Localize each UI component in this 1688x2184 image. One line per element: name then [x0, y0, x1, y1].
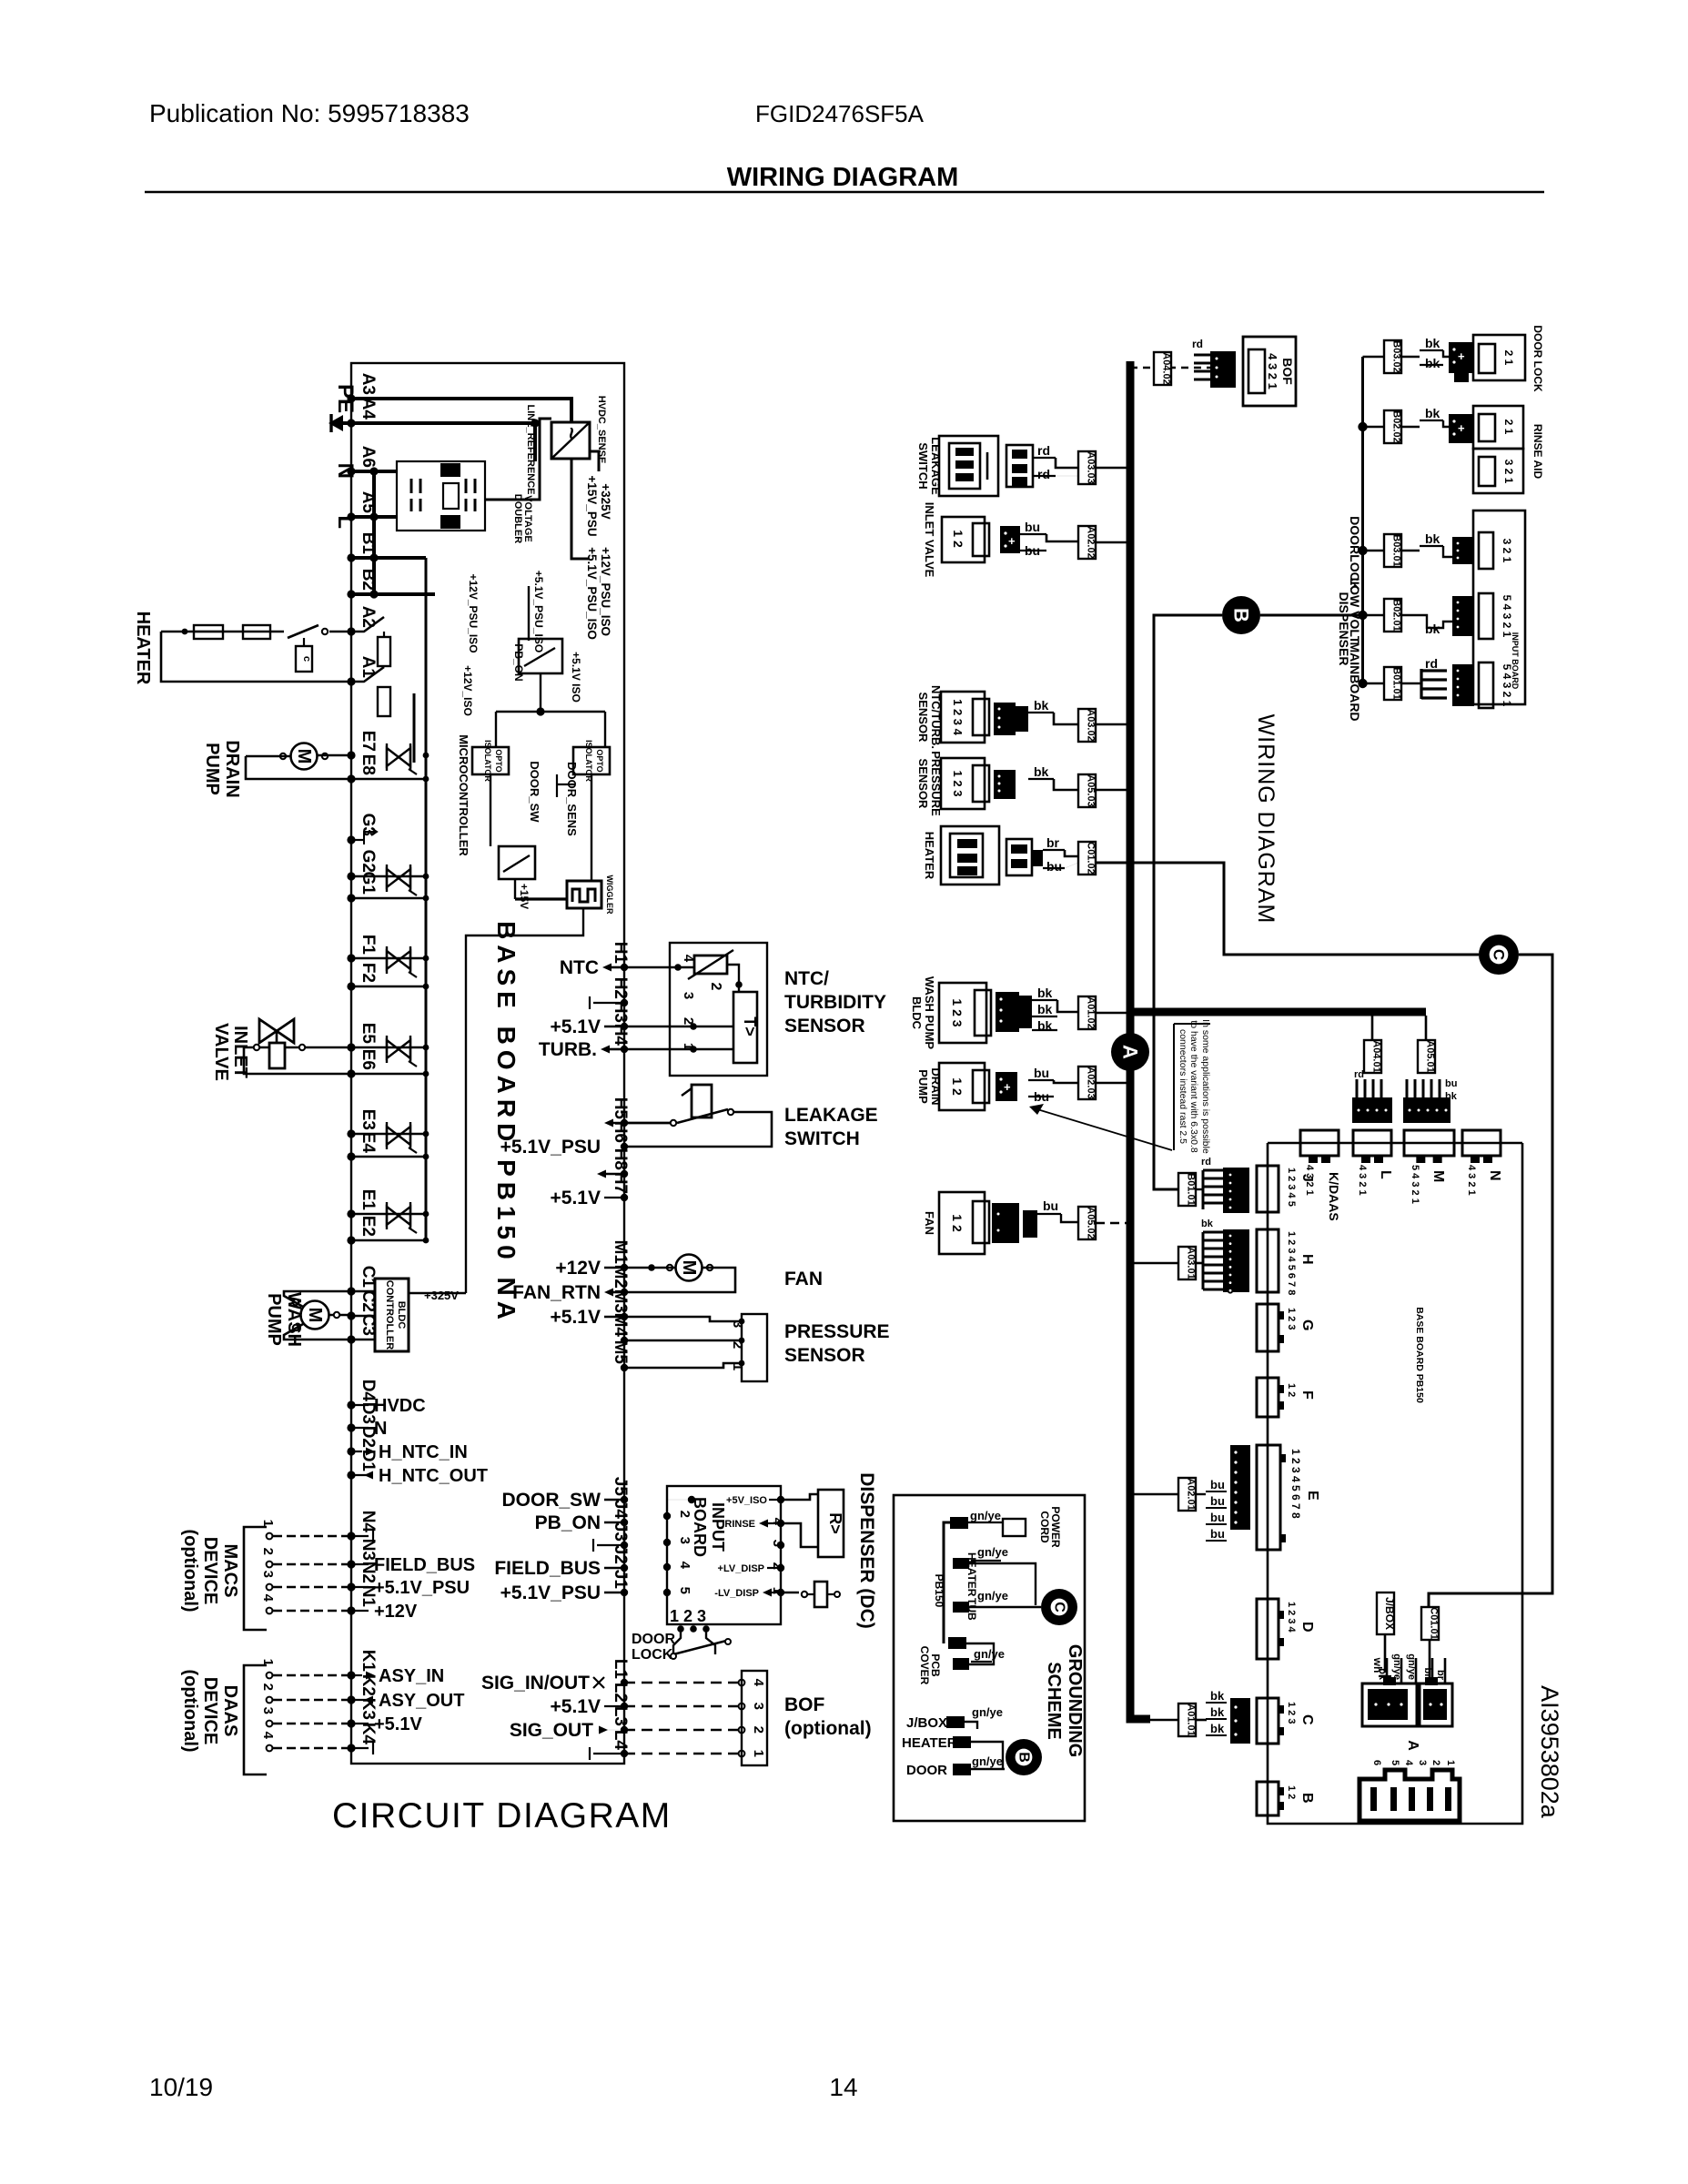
pin H6 — [621, 1143, 628, 1150]
svg-text:+: + — [1004, 1080, 1011, 1094]
connector code C01.01 — [1421, 1607, 1439, 1640]
pin C2 — [347, 1311, 355, 1319]
pin N4 — [347, 1532, 355, 1540]
svg-text:WIRING DIAGRAM: WIRING DIAGRAM — [1253, 714, 1279, 925]
svg-text:NTC/: NTC/ — [784, 968, 829, 989]
pin K1 — [347, 1671, 355, 1679]
svg-text:4 3 2 1: 4 3 2 1 — [1266, 353, 1279, 389]
isolation slit — [413, 693, 416, 763]
connector H — [1257, 1229, 1279, 1292]
svg-text:rd: rd — [1037, 443, 1050, 458]
HEATER component (wiring) — [941, 826, 999, 885]
pin M3 — [621, 1313, 628, 1320]
svg-text:L: L — [1378, 1170, 1393, 1179]
heater ground blob 2 — [953, 1736, 971, 1748]
svg-text:HVDC: HVDC — [374, 1396, 426, 1416]
DRAIN PUMP component (wiring) — [939, 1063, 985, 1110]
svg-text:-LV_DISP: -LV_DISP — [714, 1588, 759, 1599]
connector code A03.01 — [1178, 1247, 1196, 1279]
heater ground wire 2 — [971, 1742, 1003, 1769]
svg-text:2: 2 — [677, 1511, 692, 1518]
E3 E4 triac — [351, 1133, 426, 1136]
svg-text:2: 2 — [708, 983, 723, 991]
leakage connector — [1006, 445, 1033, 487]
svg-text:gn/ye: gn/ye — [977, 1589, 1008, 1603]
svg-text:1 2 3 4 5 6 7 8: 1 2 3 4 5 6 7 8 — [1286, 1231, 1297, 1295]
svg-text:2: 2 — [730, 1341, 745, 1349]
svg-text:gn/ye: gn/ye — [970, 1509, 1001, 1522]
svg-text:rd: rd — [1037, 467, 1050, 481]
svg-text:J1: J1 — [611, 1570, 630, 1590]
svg-text:bk: bk — [1425, 336, 1440, 350]
svg-text:bk: bk — [1210, 1722, 1225, 1735]
svg-text:WIGGLER: WIGGLER — [605, 875, 614, 915]
pin H8 — [621, 1170, 628, 1178]
pin J2 — [621, 1564, 628, 1572]
svg-text:2: 2 — [681, 1017, 696, 1025]
svg-text:E5: E5 — [359, 1023, 378, 1045]
svg-text:INLET VALVE: INLET VALVE — [923, 502, 936, 578]
door connector block 2 — [1420, 1683, 1452, 1726]
svg-text:1 2 3 4: 1 2 3 4 — [951, 699, 965, 736]
svg-text:+5.1V: +5.1V — [374, 1714, 422, 1734]
svg-text:+5.1V_PSU_ISO: +5.1V_PSU_ISO — [585, 547, 599, 640]
svg-text:LOCK: LOCK — [632, 1647, 673, 1663]
svg-text:SCHEME: SCHEME — [1044, 1662, 1064, 1740]
+15V switch — [499, 846, 535, 879]
NTC/TURB SENSOR component (wiring) — [941, 692, 985, 743]
svg-text:3: 3 — [1417, 1760, 1428, 1765]
opto isolator U2 — [472, 747, 509, 774]
svg-text:rd: rd — [1201, 1157, 1211, 1168]
turbidity T> box — [733, 992, 757, 1063]
svg-text:M5: M5 — [611, 1340, 630, 1365]
base board outline (wiring) — [1268, 1143, 1522, 1824]
tub ground blob — [953, 1602, 969, 1613]
svg-text:+12V: +12V — [555, 1258, 601, 1279]
pin B2 — [347, 590, 355, 598]
pin H4 — [621, 1046, 628, 1053]
K/L/M/N connector rail — [1268, 1142, 1522, 1145]
wire A4 drop to doubler — [533, 423, 537, 461]
svg-text:A: A — [1405, 1740, 1420, 1751]
svg-text:+: + — [1458, 421, 1465, 435]
dispenser R> box — [818, 1490, 844, 1557]
svg-text:N: N — [374, 1419, 387, 1439]
wire ISO outputs — [590, 451, 599, 471]
svg-text:FAN_RTN: FAN_RTN — [512, 1282, 601, 1303]
circled node A — [1111, 1033, 1149, 1071]
svg-text:4 3 2 1: 4 3 2 1 — [1357, 1165, 1368, 1196]
svg-text:1 2 3 4: 1 2 3 4 — [1286, 1602, 1297, 1633]
fan wires — [624, 1267, 675, 1269]
L4 dashed wire — [624, 1753, 742, 1755]
branch drop A04.01 — [1371, 1012, 1374, 1040]
pin E1 — [347, 1209, 355, 1218]
svg-text:B01.01: B01.01 — [1186, 1173, 1197, 1205]
wire PSU to opto — [540, 673, 541, 712]
NTC/TURBIDITY sensor box — [670, 943, 767, 1076]
pin D3 — [347, 1423, 355, 1431]
svg-text:OPTO: OPTO — [494, 749, 503, 772]
svg-text:B02.01: B02.01 — [1391, 599, 1402, 631]
svg-text:3: 3 — [770, 1540, 785, 1547]
main harness trunk — [1127, 361, 1135, 1723]
svg-text:BLDC: BLDC — [396, 1301, 407, 1330]
svg-text:A03.01: A03.01 — [1186, 1247, 1197, 1279]
pin D2 — [347, 1447, 355, 1455]
junction dots dispenser column — [1358, 422, 1367, 431]
svg-text:MACS: MACS — [220, 1544, 240, 1598]
svg-text:G2: G2 — [359, 850, 378, 873]
sensor internal wires — [624, 966, 694, 969]
svg-text:B03.01: B03.01 — [1391, 534, 1402, 566]
svg-text:+12V: +12V — [374, 1602, 418, 1622]
svg-text:J5: J5 — [611, 1477, 630, 1497]
pin A3 — [347, 394, 355, 402]
E1 E2 triac — [351, 1213, 426, 1216]
svg-text:1 2 3: 1 2 3 — [951, 771, 965, 797]
connector N — [1462, 1130, 1501, 1156]
svg-text:FIELD_BUS: FIELD_BUS — [494, 1558, 601, 1579]
svg-text:bk: bk — [1037, 1002, 1053, 1016]
svg-text:RINSE AID: RINSE AID — [1531, 424, 1544, 480]
dispenser column vertical — [1361, 357, 1364, 683]
svg-text:+5.1V_PSU: +5.1V_PSU — [500, 1137, 601, 1158]
input board top node — [688, 1496, 695, 1503]
wire trunk to E — [1130, 1493, 1178, 1496]
svg-text:1: 1 — [260, 1520, 276, 1527]
connector code C01.02 — [1078, 842, 1096, 875]
svg-text:bk: bk — [1034, 698, 1049, 713]
svg-text:C: C — [1299, 1714, 1315, 1725]
svg-text:bk: bk — [1210, 1689, 1225, 1703]
A05.01 comb connector — [1406, 1079, 1409, 1097]
svg-text:bu: bu — [1445, 1078, 1457, 1089]
dispenser wires — [781, 1494, 818, 1500]
svg-text:TURB.: TURB. — [539, 1039, 597, 1060]
DOOR LOCK box (wiring) — [1473, 335, 1525, 380]
svg-text:bu: bu — [1034, 1066, 1049, 1080]
svg-text:bu: bu — [1210, 1494, 1225, 1508]
G2 G1 triac — [351, 875, 426, 878]
connector F — [1257, 1378, 1279, 1417]
svg-text:1: 1 — [751, 1750, 766, 1757]
svg-text:DOOR_SW: DOOR_SW — [528, 761, 541, 823]
pin F1 — [347, 954, 355, 962]
L4 T bar — [593, 1753, 624, 1754]
svg-text:M: M — [1430, 1170, 1446, 1182]
svg-text:HEATER: HEATER — [923, 832, 936, 880]
svg-text:5: 5 — [1390, 1760, 1400, 1765]
svg-text:GROUNDING: GROUNDING — [1065, 1644, 1085, 1757]
wire B1 row — [351, 556, 426, 560]
pin N2 — [347, 1582, 355, 1591]
J plug — [1223, 1168, 1249, 1213]
svg-text:DRAIN: DRAIN — [222, 740, 242, 797]
svg-text:1 2 3: 1 2 3 — [1286, 1308, 1297, 1330]
E plug — [1230, 1445, 1250, 1530]
svg-text:LINE_REFERENCE: LINE_REFERENCE — [525, 404, 536, 494]
header rule — [145, 191, 1544, 194]
pin L4 — [621, 1750, 628, 1757]
svg-text:C01.01: C01.01 — [1429, 1607, 1440, 1639]
H plug — [1223, 1229, 1249, 1292]
svg-text:DOOR_SENS: DOOR_SENS — [565, 762, 579, 836]
input conn 54321 mainboard — [1452, 664, 1474, 706]
input board left pins — [663, 1512, 671, 1520]
svg-text:B: B — [1016, 1752, 1032, 1763]
svg-text:10/19: 10/19 — [149, 2073, 213, 2101]
svg-text:+5.1V_PSU_ISO: +5.1V_PSU_ISO — [532, 571, 545, 652]
door connector block 1 — [1362, 1683, 1417, 1726]
wire wiggler to bldc rail — [466, 908, 583, 1293]
door connector pin wires — [1386, 1658, 1389, 1683]
svg-text:J3: J3 — [611, 1522, 630, 1542]
svg-text:PB_ON: PB_ON — [512, 643, 525, 681]
pin K3 — [347, 1719, 355, 1727]
svg-text:LEAKAGE: LEAKAGE — [929, 437, 943, 495]
pin H7 — [621, 1194, 628, 1201]
svg-text:A4: A4 — [359, 398, 378, 420]
connector code B01.01 — [1384, 667, 1401, 700]
inlet valve wires — [244, 1046, 269, 1049]
svg-text:4: 4 — [751, 1679, 766, 1687]
connector code A04.02 — [1154, 352, 1171, 385]
svg-text:BOF: BOF — [784, 1694, 825, 1715]
+12V label N1 — [351, 1610, 369, 1612]
svg-text:A: A — [1119, 1045, 1142, 1059]
connector code A01.02 — [1078, 996, 1096, 1029]
connector B (wiring) — [1257, 1782, 1279, 1815]
ISO dc-dc converter U1 — [551, 422, 590, 459]
svg-text:DOUBLER: DOUBLER — [512, 494, 523, 543]
wire L row — [351, 515, 397, 519]
E5 E6 triac — [351, 1046, 426, 1049]
PRESSURE SENSOR component (wiring) — [941, 758, 985, 809]
pin E8 — [347, 774, 355, 783]
relay K2 — [351, 667, 384, 682]
svg-text:2 1: 2 1 — [1502, 350, 1515, 366]
PE earth symbol — [335, 421, 351, 425]
svg-text:5 4 3 2 1: 5 4 3 2 1 — [1410, 1165, 1420, 1204]
svg-text:FGID2476SF5A: FGID2476SF5A — [755, 100, 925, 127]
svg-text:SENSOR: SENSOR — [916, 693, 930, 743]
pin J5 — [621, 1496, 628, 1503]
pin D1 — [347, 1471, 355, 1479]
wire A4 mains — [351, 421, 535, 425]
pin K2 — [347, 1695, 355, 1704]
svg-text:A04.01: A04.01 — [1371, 1040, 1382, 1072]
svg-text:PRESSURE: PRESSURE — [784, 1321, 890, 1342]
note arrow — [1037, 1109, 1172, 1150]
svg-text:+5.1V_PSU: +5.1V_PSU — [500, 1582, 601, 1603]
wash pump motor M2 — [301, 1301, 329, 1330]
svg-text:gn/ye: gn/ye — [1406, 1653, 1417, 1680]
svg-text:3: 3 — [260, 1571, 276, 1578]
L1 dashed wire — [624, 1682, 742, 1684]
F1 F2 triac — [351, 957, 426, 960]
svg-text:rd: rd — [1425, 656, 1438, 671]
ASY_OUT label — [351, 1699, 373, 1701]
heater fuse F1 — [194, 625, 223, 639]
connector J — [1257, 1166, 1279, 1212]
svg-text:A01.02: A01.02 — [1086, 996, 1097, 1028]
svg-text:A03.02: A03.02 — [1086, 709, 1097, 741]
input conn 54321 low volt — [1452, 596, 1474, 636]
svg-text:M: M — [679, 1260, 699, 1276]
connector code A05.01 — [1418, 1040, 1435, 1073]
svg-text:DEVICE: DEVICE — [200, 1537, 220, 1604]
door ground wire — [971, 1768, 1005, 1770]
svg-text:(optional): (optional) — [180, 1529, 200, 1612]
svg-text:gn/ye: gn/ye — [977, 1545, 1008, 1559]
svg-text:INLET: INLET — [230, 1026, 250, 1078]
svg-text:4 3 2 1: 4 3 2 1 — [1466, 1165, 1477, 1196]
svg-text:A02.03: A02.03 — [1086, 1067, 1097, 1098]
note text — [1173, 1024, 1175, 1150]
svg-text:H7: H7 — [611, 1172, 630, 1194]
svg-text:L1: L1 — [611, 1659, 630, 1680]
svg-text:PUMP: PUMP — [916, 1069, 930, 1104]
BOF connector box (circuit) — [742, 1671, 767, 1765]
svg-text:gn/ye: gn/ye — [1391, 1653, 1402, 1680]
svg-text:PB150: PB150 — [933, 1574, 945, 1608]
connector D — [1257, 1599, 1279, 1659]
svg-text:4: 4 — [681, 955, 696, 963]
svg-text:BOF: BOF — [1280, 358, 1295, 385]
heater circuit wires — [329, 631, 351, 633]
pin J3 — [621, 1542, 628, 1549]
connector code B02.01 — [1384, 599, 1401, 632]
wire A01.02 to trunk — [1096, 1012, 1130, 1015]
pin E7 — [347, 751, 355, 759]
svg-text:PB_ON: PB_ON — [535, 1512, 601, 1533]
svg-text:A05.01: A05.01 — [1425, 1040, 1436, 1072]
svg-text:TURBIDITY: TURBIDITY — [784, 992, 886, 1013]
svg-text:SWITCH: SWITCH — [784, 1128, 860, 1149]
svg-text:A6: A6 — [359, 446, 378, 468]
pin A4 — [347, 419, 355, 427]
svg-text:N4: N4 — [359, 1511, 378, 1533]
voltage doubler block — [397, 461, 485, 531]
L2 dashed wire — [624, 1705, 742, 1708]
doorlock connector — [1449, 342, 1472, 373]
input board right pins — [777, 1520, 784, 1527]
svg-text:br: br — [1046, 835, 1060, 850]
svg-text:BOARD: BOARD — [691, 1497, 709, 1557]
svg-text:CONTROLLER: CONTROLLER — [384, 1280, 395, 1350]
svg-text:BASE BOARD PB150 NA: BASE BOARD PB150 NA — [492, 921, 521, 1325]
svg-text:3: 3 — [677, 1537, 692, 1544]
heater ground wire — [969, 1563, 1036, 1605]
svg-text:FIELD_BUS: FIELD_BUS — [374, 1555, 475, 1575]
connector C — [1257, 1698, 1279, 1744]
door lock switch — [677, 1625, 684, 1633]
svg-text:1 2: 1 2 — [1286, 1383, 1297, 1397]
J/BOX box — [1377, 1592, 1394, 1634]
svg-text:L4: L4 — [611, 1730, 630, 1751]
svg-text:1 2: 1 2 — [950, 1214, 965, 1232]
WASH PUMP BLDC component (wiring) — [939, 983, 986, 1043]
svg-text:G: G — [1299, 1319, 1315, 1330]
svg-text:+5.1V: +5.1V — [551, 1696, 601, 1717]
RINSE AID box lower — [1473, 449, 1523, 493]
G3 gate arrow — [351, 839, 364, 841]
svg-text:E: E — [1305, 1491, 1320, 1501]
BOF comb fingers — [1194, 354, 1210, 357]
svg-text:A03.03: A03.03 — [1086, 451, 1097, 483]
MACS wires — [267, 1533, 273, 1540]
circled node B (grounding) — [1006, 1739, 1042, 1775]
N4 T bar — [351, 1535, 369, 1537]
svg-text:M1: M1 — [611, 1240, 630, 1265]
svg-text:E1: E1 — [359, 1189, 378, 1211]
svg-text:H3: H3 — [611, 1001, 630, 1023]
svg-text:M: M — [305, 1308, 325, 1323]
wire trunk to BOF dashed — [1130, 367, 1210, 369]
svg-text:K1: K1 — [359, 1650, 378, 1673]
wire A3 HVDC sense — [351, 399, 571, 422]
pin H3 — [621, 1023, 628, 1030]
ntc thermistor symbol — [694, 955, 727, 974]
svg-text:H6: H6 — [611, 1121, 630, 1143]
MACS DEVICE box — [244, 1527, 267, 1630]
svg-text:E3: E3 — [359, 1109, 378, 1130]
pressure sensor wires — [624, 1317, 742, 1321]
wire A05.03 to trunk — [1096, 789, 1130, 792]
pin E2 — [347, 1236, 355, 1244]
base board PB150 NA outline — [351, 363, 624, 1764]
pin L1 — [621, 1679, 628, 1686]
mainboard comb — [1421, 669, 1447, 672]
svg-text:E4: E4 — [359, 1132, 378, 1154]
svg-text:+15V_PSU: +15V_PSU — [585, 475, 599, 536]
svg-text:4: 4 — [770, 1518, 785, 1526]
svg-text:rd: rd — [1354, 1069, 1364, 1080]
svg-text:F: F — [1299, 1390, 1315, 1400]
opto isolator U3 — [573, 747, 610, 774]
svg-text:J4: J4 — [611, 1500, 630, 1520]
svg-text:E2: E2 — [359, 1216, 378, 1237]
svg-text:bk: bk — [1425, 406, 1440, 420]
svg-text:SWITCH: SWITCH — [916, 442, 930, 489]
pin J4 — [621, 1519, 628, 1526]
svg-text:3: 3 — [681, 992, 696, 999]
svg-text:+: + — [1458, 349, 1465, 363]
drain pump wires — [318, 754, 351, 757]
svg-text:LEAKAGE: LEAKAGE — [784, 1105, 878, 1126]
connector code B03.02 — [1384, 340, 1401, 373]
power cord box — [1003, 1519, 1026, 1536]
INLET VALVE component (wiring) — [942, 517, 985, 562]
A04.01 comb connector — [1356, 1079, 1359, 1097]
connector K — [1300, 1130, 1339, 1156]
J comb connector — [1203, 1169, 1223, 1172]
wire micro chain — [490, 774, 491, 846]
svg-text:T>: T> — [741, 1016, 759, 1036]
input board box — [667, 1486, 781, 1624]
wire B to dispenser column — [1260, 614, 1362, 617]
svg-text:4: 4 — [260, 1732, 276, 1740]
heater fuse F2 — [243, 625, 270, 639]
wire BLDC +325V — [409, 1292, 466, 1294]
wire A02.02 to trunk — [1096, 541, 1130, 544]
svg-text:DOOR LOCK: DOOR LOCK — [1531, 325, 1544, 392]
svg-text:MICROCONTROLLER: MICROCONTROLLER — [457, 734, 470, 856]
wire B2 row — [351, 592, 435, 596]
svg-text:DAAS: DAAS — [220, 1685, 240, 1737]
